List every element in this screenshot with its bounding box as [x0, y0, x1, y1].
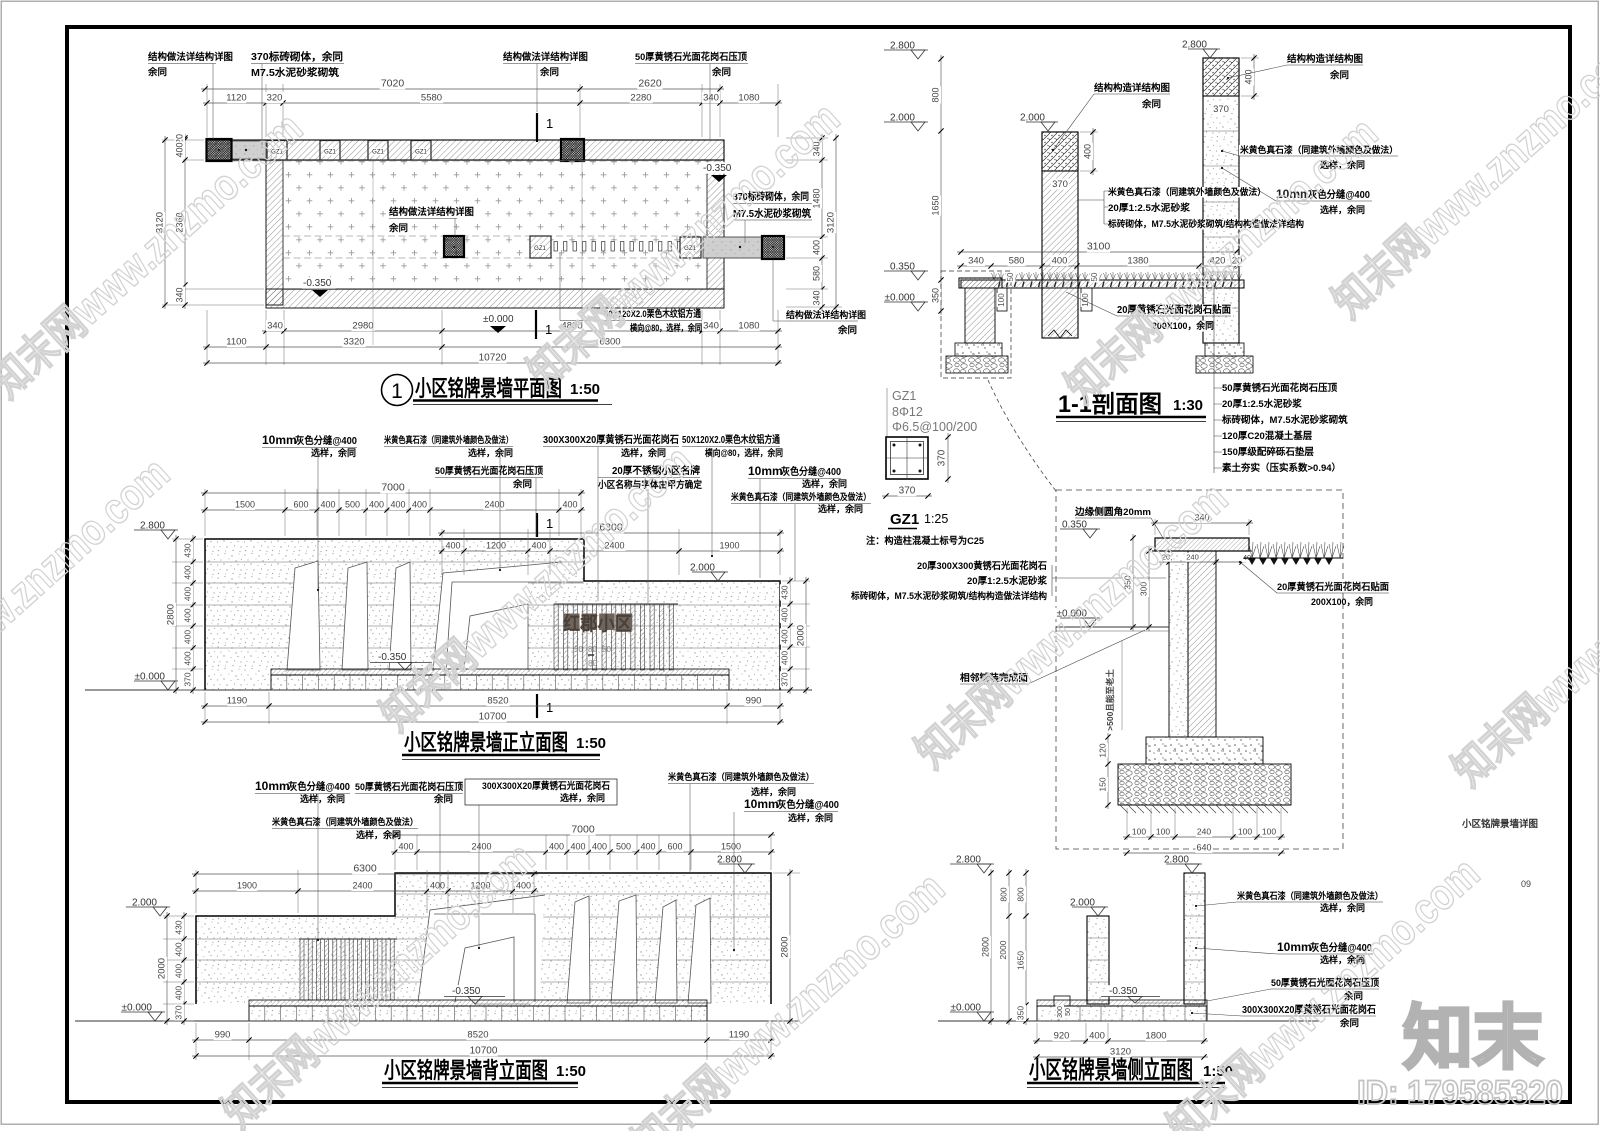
svg-text:80: 80	[588, 645, 597, 654]
plan: end column dark square left	[207, 139, 232, 161]
svg-text:430: 430	[183, 543, 193, 557]
svg-text:920: 920	[1054, 1031, 1070, 1042]
svg-text:600: 600	[667, 842, 682, 852]
svg-text:灰色分缝@400: 灰色分缝@400	[288, 780, 350, 793]
side elev: bottom dims	[1036, 1023, 1038, 1044]
detail: cap small dims 20/240/20	[1159, 561, 1246, 563]
section: 3100 dim	[957, 251, 1240, 253]
svg-text:余同: 余同	[1141, 98, 1161, 109]
plan: GZ1 columns on top band	[267, 141, 287, 161]
svg-text:米黄色真石漆（同建筑外墙颜色及做法）: 米黄色真石漆（同建筑外墙颜色及做法）	[667, 771, 814, 782]
svg-text:400: 400	[175, 142, 185, 157]
plan: bottom dim rows	[206, 310, 208, 365]
svg-text:5580: 5580	[421, 93, 442, 104]
back elev: central niche white	[420, 896, 544, 1000]
svg-text:横向@80，选样，余同: 横向@80，选样，余同	[705, 447, 783, 458]
front elev: tall wall	[205, 539, 584, 690]
svg-text:10700: 10700	[470, 1046, 498, 1057]
section: paver joint ticks on slab	[999, 282, 1001, 288]
svg-text:400: 400	[780, 608, 790, 622]
svg-text:横向@80，选样，余同: 横向@80，选样，余同	[630, 322, 702, 333]
back elev: grille slats (back side)	[299, 938, 397, 940]
svg-text:2980: 2980	[352, 321, 373, 332]
svg-text:>500且能至老土: >500且能至老土	[1105, 669, 1115, 731]
svg-text:400: 400	[812, 240, 822, 255]
back elev: wall outline	[196, 873, 771, 1004]
svg-text:400: 400	[320, 500, 335, 510]
svg-text:990: 990	[746, 696, 762, 707]
back elev: low wall (left)	[196, 916, 395, 1004]
svg-text:10700: 10700	[479, 712, 507, 723]
svg-text:430: 430	[780, 585, 790, 599]
svg-text:430: 430	[174, 920, 184, 934]
svg-text:240: 240	[1186, 553, 1199, 562]
plan dim row 7020/2620	[201, 88, 724, 90]
svg-text:米黄色真石漆（同建筑外墙颜色及做法）: 米黄色真石漆（同建筑外墙颜色及做法）	[1236, 890, 1383, 901]
svg-text:余同: 余同	[711, 66, 731, 77]
svg-text:余同: 余同	[1339, 1017, 1359, 1028]
detail: 20厚黄锈石贴面 callout right	[1276, 582, 1390, 593]
svg-text:400: 400	[183, 651, 193, 665]
plan dim row 1120/320/5580/2280/340/1080	[203, 102, 782, 104]
plan: section cut mark 1 top	[536, 113, 538, 142]
plan: -0.350 marker	[302, 277, 336, 289]
svg-text:米黄色真石漆（同建筑外墙颜色及做法）: 米黄色真石漆（同建筑外墙颜色及做法）	[383, 434, 513, 445]
svg-text:2800: 2800	[981, 937, 991, 957]
svg-text:1:30: 1:30	[1173, 397, 1203, 414]
svg-text:1:50: 1:50	[556, 1063, 586, 1080]
svg-text:6300: 6300	[353, 863, 377, 875]
svg-text:350: 350	[931, 288, 941, 303]
svg-text:余同: 余同	[512, 478, 532, 489]
svg-text:50厚黄锈石光面花岗石压顶: 50厚黄锈石光面花岗石压顶	[435, 465, 543, 477]
back elev: top dims 7000 row	[394, 835, 396, 870]
detail: right grass	[1249, 542, 1344, 558]
section: sub dims 340/580/400/1380/420/20	[957, 265, 1242, 267]
svg-text:990: 990	[215, 1030, 231, 1041]
section: 2.000 marker center	[1018, 112, 1046, 124]
svg-text:400: 400	[369, 500, 384, 510]
section: center column body	[1042, 132, 1078, 338]
svg-text:1650: 1650	[931, 195, 941, 215]
back elev: base block course	[249, 1006, 707, 1021]
svg-text:400: 400	[174, 964, 184, 978]
svg-text:1: 1	[546, 700, 553, 715]
GZ1 dims	[882, 495, 932, 497]
svg-text:GZ1: GZ1	[890, 511, 919, 528]
svg-text:Φ6.5@100/200: Φ6.5@100/200	[892, 420, 977, 434]
svg-text:150: 150	[1098, 777, 1108, 791]
svg-text:选样，余同: 选样，余同	[560, 792, 605, 803]
svg-text:±0.000: ±0.000	[483, 314, 514, 325]
front elev: 0.350 marker in niche	[377, 651, 411, 663]
svg-text:GZ1: GZ1	[324, 150, 336, 156]
svg-text:选样，余同: 选样，余同	[1320, 204, 1365, 215]
front elev: central niche white	[433, 562, 562, 671]
side elev: base course	[1037, 1006, 1207, 1021]
section: left pier	[959, 278, 1002, 288]
back elev: callout leaders	[317, 794, 319, 940]
side elev: right column (2.800)	[1184, 873, 1205, 1004]
svg-text:米黄色真石漆（同建筑外墙颜色及做法）: 米黄色真石漆（同建筑外墙颜色及做法）	[1107, 186, 1266, 197]
svg-text:300X300X20厚黄锈石光面花岗石: 300X300X20厚黄锈石光面花岗石	[482, 780, 610, 792]
svg-text:2400: 2400	[471, 842, 491, 852]
plan title	[382, 375, 413, 406]
svg-text:340: 340	[968, 256, 984, 267]
back elev: 2.800 marker	[715, 854, 743, 866]
section: right column body speckle	[1203, 58, 1239, 343]
svg-text:选样，余同: 选样，余同	[1320, 902, 1365, 913]
front elev: niche frame sculpture outline	[433, 562, 562, 671]
back elev: niche frame sculpture outline	[418, 895, 545, 1002]
svg-text:余同: 余同	[433, 793, 453, 804]
svg-text:100: 100	[1156, 827, 1170, 837]
front elev: 2.000 marker right	[688, 562, 716, 574]
detail: wall body stone facing	[1169, 551, 1188, 737]
svg-text:米黄色真石漆（同建筑外墙颜色及做法）: 米黄色真石漆（同建筑外墙颜色及做法）	[271, 816, 418, 827]
svg-text:400: 400	[570, 842, 585, 852]
svg-text:400: 400	[430, 881, 445, 891]
svg-text:100: 100	[1262, 827, 1276, 837]
section: dashed box around left footing	[941, 271, 1011, 378]
svg-text:370: 370	[1213, 104, 1229, 115]
svg-text:400: 400	[562, 500, 577, 510]
plan: dashed wall face line below top band	[232, 160, 720, 162]
plan: right end dark column	[762, 236, 784, 259]
svg-text:400: 400	[412, 500, 427, 510]
svg-text:注：构造柱混凝土标号为C25: 注：构造柱混凝土标号为C25	[866, 535, 985, 547]
svg-text:1800: 1800	[1145, 1031, 1166, 1042]
detail: pavement callout stack (top)	[1213, 285, 1215, 473]
svg-text:1:25: 1:25	[924, 512, 948, 526]
section: right column footing	[1205, 343, 1244, 356]
front elev: 6300 row	[441, 529, 443, 575]
detail: 350/300 vertical dims	[1132, 534, 1134, 631]
svg-text:M7.5水泥砂浆砌筑: M7.5水泥砂浆砌筑	[251, 66, 339, 79]
svg-text:80: 80	[588, 658, 598, 668]
svg-text:20厚300X300黄锈石光面花岗石: 20厚300X300黄锈石光面花岗石	[917, 560, 1047, 572]
back elev: base strip	[249, 1000, 707, 1006]
svg-text:580: 580	[812, 266, 822, 281]
back elev: joint lines	[395, 893, 771, 895]
section: center column break squiggle	[1048, 330, 1072, 338]
detail: bottom dims	[1126, 808, 1128, 840]
svg-text:600: 600	[293, 500, 308, 510]
svg-text:50X120X2.0栗色木纹铝方通: 50X120X2.0栗色木纹铝方通	[682, 433, 780, 446]
svg-text:-0.350: -0.350	[452, 986, 481, 997]
side elev: 0.350 marker	[1108, 985, 1142, 997]
section: grass tufts	[992, 272, 1242, 280]
svg-text:8Φ12: 8Φ12	[892, 405, 923, 419]
side elev: plinth strip	[1037, 1000, 1207, 1006]
back elev: fins	[567, 896, 590, 1003]
svg-text:选样，余同: 选样，余同	[356, 829, 401, 840]
detail: footing gravel	[1118, 764, 1291, 805]
svg-text:340: 340	[175, 287, 185, 302]
svg-text:400: 400	[1244, 69, 1254, 84]
svg-text:09: 09	[1521, 879, 1531, 889]
svg-text:400: 400	[1052, 256, 1068, 267]
svg-text:400: 400	[640, 842, 655, 852]
svg-text:2400: 2400	[352, 881, 372, 891]
svg-text:340: 340	[812, 290, 822, 305]
svg-text:选样，余同: 选样，余同	[802, 478, 847, 489]
svg-text:50: 50	[1006, 272, 1015, 281]
back elev: top dims 6300 row	[195, 870, 197, 913]
svg-text:370: 370	[780, 672, 790, 686]
svg-text:100: 100	[1132, 827, 1146, 837]
svg-text:8520: 8520	[487, 696, 508, 707]
plan: 0.350 marker right	[702, 162, 736, 174]
svg-text:150厚级配碎砾石垫层: 150厚级配碎砾石垫层	[1222, 446, 1314, 458]
svg-text:340: 340	[703, 93, 719, 104]
front elev: ground line	[85, 689, 812, 691]
svg-text:50: 50	[1090, 272, 1099, 281]
section: left dim chain	[940, 55, 942, 315]
svg-text:灰色分缝@400: 灰色分缝@400	[295, 434, 357, 447]
svg-text:1100: 1100	[226, 337, 246, 348]
svg-text:余同: 余同	[1329, 69, 1349, 80]
svg-text:400: 400	[183, 587, 193, 601]
plan: right vertical dims	[786, 137, 828, 139]
svg-text:结构做法详结构详图: 结构做法详结构详图	[502, 51, 588, 63]
section: right column cap	[1203, 58, 1239, 96]
detail: wall body brick core	[1188, 551, 1216, 737]
GZ1 dashed leader curve	[988, 380, 1056, 491]
svg-text:选样，余同: 选样，余同	[751, 786, 796, 797]
side elev: 300/50 tiny dims	[1056, 1005, 1065, 1019]
front elev: bottom dims	[204, 692, 206, 724]
detail: left pavement line	[1056, 626, 1169, 628]
svg-text:米黄色真石漆（同建筑外墙颜色及做法）: 米黄色真石漆（同建筑外墙颜色及做法）	[730, 491, 871, 502]
svg-text:2400: 2400	[484, 500, 504, 510]
svg-text:400: 400	[390, 500, 405, 510]
front elev: top dims 7000 row	[204, 489, 206, 536]
plan: +-0.000 marker	[482, 313, 516, 325]
svg-text:1080: 1080	[738, 321, 759, 332]
front elev: section marks	[536, 513, 538, 537]
back elev: bottom dims	[195, 1023, 197, 1060]
detail: footing concrete pad	[1146, 737, 1263, 764]
svg-text:340: 340	[267, 321, 283, 332]
svg-text:余同: 余同	[388, 222, 408, 233]
plan: middle wall GZ1 dark square	[444, 236, 464, 257]
plan: right wall band	[707, 160, 724, 289]
plan: top dimension extension lines	[206, 84, 208, 137]
svg-text:10mm: 10mm	[744, 797, 779, 811]
svg-text:400: 400	[780, 629, 790, 643]
section: right column material texts	[1239, 145, 1399, 156]
svg-text:200X100，余同: 200X100，余同	[1311, 596, 1373, 608]
svg-text:选样，余同: 选样，余同	[468, 447, 513, 458]
svg-text:-0.350: -0.350	[303, 278, 332, 289]
svg-text:2800: 2800	[166, 604, 177, 625]
svg-text:ID: 179585320: ID: 179585320	[1357, 1074, 1563, 1112]
svg-text:2620: 2620	[638, 78, 662, 90]
svg-text:小区铭牌景墙正立面图: 小区铭牌景墙正立面图	[404, 730, 568, 755]
svg-text:余同: 余同	[147, 66, 167, 77]
svg-text:1500: 1500	[235, 500, 255, 510]
svg-text:余同: 余同	[837, 324, 857, 335]
plan: dark square mid top band	[561, 139, 584, 161]
svg-text:素土夯实（压实系数>0.94）: 素土夯实（压实系数>0.94）	[1221, 462, 1341, 474]
plan: section cut mark 1 bottom	[535, 310, 537, 339]
side elev: left dim chains	[1008, 869, 1010, 1025]
svg-text:红郡小区: 红郡小区	[563, 612, 632, 635]
svg-text:7000: 7000	[571, 824, 595, 836]
back elev: tall wall (right)	[395, 873, 771, 1004]
svg-text:370标砖砌体，余同: 370标砖砌体，余同	[251, 50, 343, 63]
svg-text:3100: 3100	[1087, 241, 1111, 253]
plan: interior annotation 结构做法详结构详图	[388, 207, 475, 218]
svg-text:3120: 3120	[1110, 1047, 1131, 1058]
back elev: left levels	[130, 897, 158, 909]
plan: left wall band	[266, 160, 283, 305]
svg-text:选样，余同: 选样，余同	[818, 503, 863, 514]
svg-text:边缘侧圆角20mm: 边缘侧圆角20mm	[1074, 506, 1151, 518]
front elev: base block course	[271, 675, 729, 690]
svg-text:1: 1	[546, 116, 553, 131]
svg-text:400: 400	[780, 651, 790, 665]
svg-text:结构做法详结构详图: 结构做法详结构详图	[388, 206, 474, 218]
svg-text:1080: 1080	[738, 93, 759, 104]
svg-text:50: 50	[602, 645, 611, 654]
svg-text:10720: 10720	[479, 353, 507, 364]
svg-text:1:50: 1:50	[576, 735, 606, 752]
section: seat supports	[997, 288, 1007, 311]
front elev: joint lines	[205, 561, 584, 563]
svg-text:3320: 3320	[343, 337, 364, 348]
svg-text:400: 400	[174, 986, 184, 1000]
section: left pier gravel	[946, 356, 1008, 373]
svg-text:50厚黄锈石光面花岗石压顶: 50厚黄锈石光面花岗石压顶	[635, 51, 747, 63]
detail: 120/150 dims	[1107, 733, 1109, 809]
plan: wood slat grille row (50X120 tubes)	[554, 242, 557, 252]
svg-text:640: 640	[1196, 843, 1211, 853]
svg-text:2000: 2000	[157, 958, 168, 979]
plan: long construction verticals	[372, 161, 374, 345]
svg-text:20厚1:2.5水泥砂浆: 20厚1:2.5水泥砂浆	[1108, 202, 1190, 214]
back elev: boxed callout 300X300	[465, 779, 617, 805]
detail: 0.350 level	[1060, 519, 1088, 531]
svg-text:800: 800	[999, 887, 1009, 901]
side elev: ground line	[938, 1020, 1320, 1022]
svg-text:标砖砌体，M7.5水泥砂浆砌筑: 标砖砌体，M7.5水泥砂浆砌筑	[1221, 414, 1348, 426]
section: 2.800 marker right column	[1180, 39, 1208, 51]
svg-text:小区铭牌景墙详图: 小区铭牌景墙详图	[1461, 818, 1538, 830]
svg-text:1: 1	[546, 516, 553, 531]
detail: soil hatch below	[1118, 804, 1291, 806]
svg-text:灰色分缝@400: 灰色分缝@400	[781, 465, 841, 478]
svg-text:100: 100	[1238, 827, 1252, 837]
svg-text:400: 400	[1083, 144, 1093, 159]
svg-text:1200: 1200	[486, 541, 506, 551]
front elev: left levels and dims	[138, 520, 166, 532]
svg-text:1:50: 1:50	[570, 381, 600, 398]
svg-text:2000: 2000	[998, 940, 1008, 959]
front elev: fins (white sculptural)	[287, 561, 320, 670]
side elev: levels	[954, 854, 982, 866]
svg-text:580: 580	[1009, 256, 1025, 267]
side elev: small left step	[1054, 996, 1070, 1006]
plan: right GZ1 hatched square	[680, 237, 701, 258]
svg-text:GZ1: GZ1	[415, 150, 427, 156]
svg-text:2800: 2800	[780, 936, 791, 957]
svg-text:400: 400	[183, 630, 193, 644]
svg-text:50: 50	[574, 645, 583, 654]
svg-text:3120: 3120	[826, 212, 837, 233]
svg-text:20厚1:2.5水泥砂浆: 20厚1:2.5水泥砂浆	[1222, 398, 1302, 410]
svg-text:370: 370	[1052, 179, 1068, 190]
section: 400 dim right of right cap	[1241, 57, 1259, 59]
section: center column cap	[1042, 132, 1078, 171]
svg-text:标砖砌体，M7.5水泥砂浆砌筑/结构构造做法详结构: 标砖砌体，M7.5水泥砂浆砌筑/结构构造做法详结构	[850, 590, 1047, 601]
plan: left vertical dims	[162, 139, 204, 141]
front elev: base strip	[271, 669, 729, 675]
front elev: low right wall	[584, 581, 780, 690]
svg-text:10mm: 10mm	[748, 464, 783, 478]
svg-text:400: 400	[1089, 1031, 1105, 1042]
svg-text:灰色分缝@400: 灰色分缝@400	[777, 798, 839, 811]
front elev: right dims	[782, 580, 810, 582]
detail: cap slab	[1155, 538, 1249, 551]
svg-text:2000: 2000	[796, 625, 807, 646]
svg-text:小区铭牌景墙背立面图: 小区铭牌景墙背立面图	[384, 1058, 548, 1083]
svg-text:1: 1	[391, 380, 403, 403]
svg-text:500: 500	[345, 500, 360, 510]
side elev: left column (2.000)	[1087, 916, 1109, 1004]
svg-text:选样，余同: 选样，余同	[788, 812, 833, 823]
plan view: top wall band	[207, 140, 724, 160]
section: left pier footing pad	[955, 343, 1002, 356]
svg-text:320: 320	[267, 93, 283, 104]
svg-text:400: 400	[183, 565, 193, 579]
svg-text:小区铭牌景墙侧立面图: 小区铭牌景墙侧立面图	[1029, 1056, 1193, 1084]
svg-text:800: 800	[1016, 887, 1026, 901]
svg-text:10mm: 10mm	[255, 779, 290, 793]
svg-text:120厚C20混凝土基层: 120厚C20混凝土基层	[1222, 430, 1313, 442]
svg-text:120: 120	[1098, 743, 1108, 757]
svg-text:1190: 1190	[227, 696, 247, 707]
svg-text:10mm: 10mm	[262, 433, 297, 447]
svg-text:7020: 7020	[381, 78, 405, 90]
detail: +-0.000 level	[1055, 608, 1089, 620]
plan: right protruding brick wall	[703, 237, 762, 258]
front elev: sign text 红郡小区	[564, 614, 580, 631]
svg-text:GZ1: GZ1	[534, 246, 546, 252]
svg-text:100: 100	[997, 293, 1006, 307]
svg-text:50厚黄锈石光面花岗石压顶: 50厚黄锈石光面花岗石压顶	[355, 781, 463, 793]
svg-text:300: 300	[1057, 1006, 1064, 1018]
section: seat slab	[961, 280, 1244, 288]
plan: planting interior with + speckle	[283, 161, 707, 290]
svg-text:240: 240	[1197, 827, 1211, 837]
svg-text:370: 370	[183, 672, 193, 686]
svg-text:400: 400	[398, 842, 413, 852]
svg-text:50: 50	[1065, 1008, 1072, 1016]
svg-text:400: 400	[183, 608, 193, 622]
svg-text:500: 500	[616, 842, 631, 852]
svg-text:1500: 1500	[721, 842, 741, 852]
svg-text:370: 370	[937, 449, 948, 466]
detail: dashed boundary box	[1056, 490, 1343, 849]
svg-text:1480: 1480	[812, 188, 822, 208]
svg-text:-0.350: -0.350	[1109, 986, 1138, 997]
section: 400 dim right of center cap	[1080, 131, 1098, 133]
svg-text:结构做法详结构详图: 结构做法详结构详图	[786, 309, 866, 320]
svg-text:20厚黄锈石光面花岗石贴面: 20厚黄锈石光面花岗石贴面	[1277, 581, 1389, 593]
svg-text:20厚1:2.5水泥砂浆: 20厚1:2.5水泥砂浆	[967, 575, 1047, 587]
